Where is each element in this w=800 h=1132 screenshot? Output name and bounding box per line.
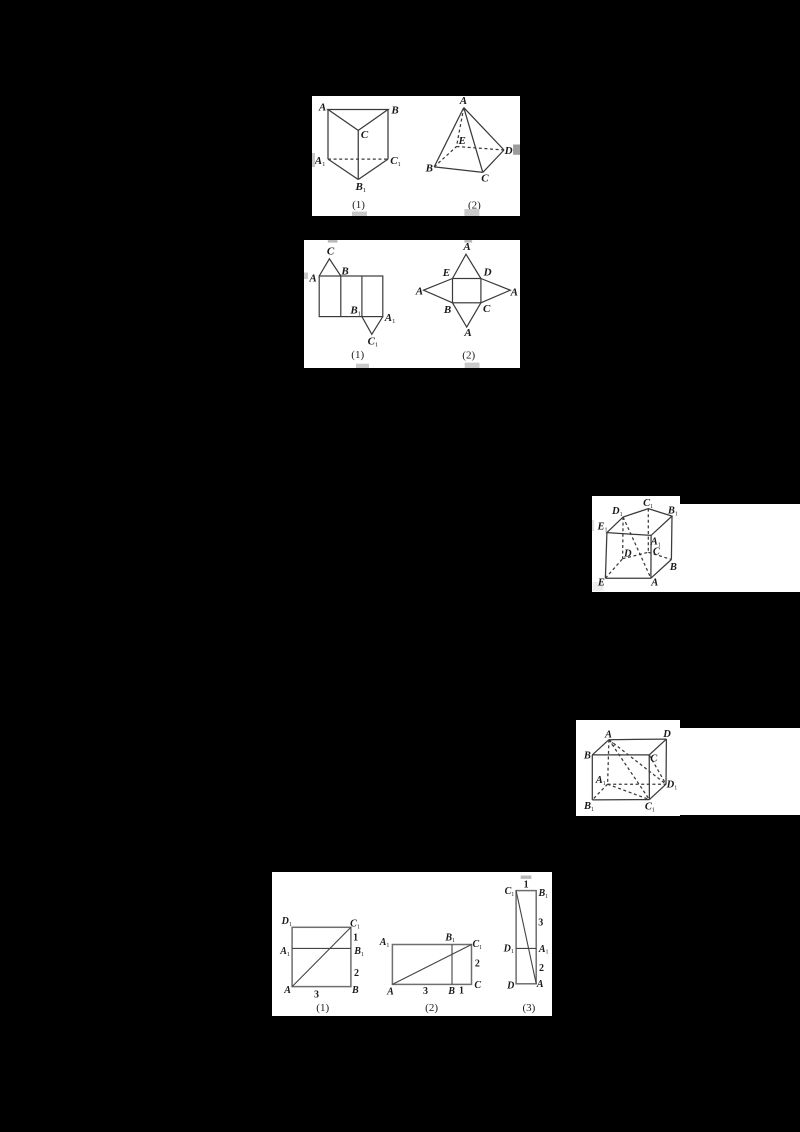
cube edge D-C (649, 739, 666, 755)
svg-text:B: B (351, 985, 359, 996)
svg-text:(1): (1) (316, 1002, 329, 1014)
edge E-A (605, 577, 651, 579)
scan artifact: grey square right of D (513, 145, 520, 155)
svg-text:A: A (283, 985, 291, 996)
cube edge B-C (592, 754, 649, 756)
pyramid edge A-D (464, 108, 504, 150)
svg-text:B1: B1 (537, 888, 548, 900)
cube edge B1-C1 (592, 798, 649, 800)
scan artifact grey: left square (304, 273, 308, 280)
svg-text:A: A (650, 577, 658, 588)
edge A1-A (650, 535, 652, 578)
cube hidden edge A1-D1 dashed (608, 783, 666, 785)
svg-text:D1: D1 (503, 943, 514, 955)
scan artifact grey: top left (328, 240, 338, 243)
svg-text:E: E (458, 135, 466, 147)
white band right of box 4 (680, 728, 800, 816)
cube edge A-D (609, 738, 667, 741)
svg-text:A1: A1 (314, 155, 326, 168)
rect (3) diagonal C1-A (516, 891, 536, 984)
prism hidden edge A1-C1 dashed (328, 158, 388, 160)
net (1): big rectangle (319, 276, 383, 317)
svg-text:2: 2 (354, 968, 359, 979)
svg-text:C: C (474, 980, 481, 991)
scan artifact: faint shade bottom-left (593, 582, 604, 591)
svg-text:D1: D1 (611, 506, 623, 518)
svg-text:B1: B1 (349, 305, 361, 318)
figure box 5: three unfolded rectangles with diagonals (272, 872, 552, 1016)
svg-text:B: B (390, 105, 398, 117)
svg-text:(3): (3) (522, 1002, 535, 1014)
svg-text:B: B (340, 265, 348, 277)
cube edge C-C1 (648, 755, 650, 800)
cube diagonal A1-C1 dashed (608, 784, 650, 799)
hidden diagonal D1-A dashed (623, 517, 651, 578)
svg-text:A1: A1 (279, 946, 290, 958)
svg-text:B1: B1 (355, 181, 367, 194)
svg-text:C: C (483, 303, 491, 315)
rect (1) outer (292, 927, 351, 986)
svg-text:1: 1 (524, 879, 529, 890)
pyramid edge B-C (434, 167, 483, 173)
scan artifact: grey bar left edge (312, 153, 315, 167)
svg-text:A1: A1 (538, 944, 549, 956)
scan artifact: grey rect below (2) (464, 209, 479, 216)
prism (1): top triangle ABC (328, 110, 388, 131)
prism edge A1-B1 (328, 159, 358, 179)
svg-text:B1: B1 (667, 505, 678, 517)
edge E1-E (605, 532, 607, 578)
rect (2) outer (392, 945, 471, 985)
figure box 1: solid views of prism and pyramid (312, 96, 520, 216)
prism top face E1-D1-C1-B1-A1 (607, 508, 672, 535)
svg-text:E: E (442, 267, 450, 279)
hidden edge C-B dashed (648, 552, 671, 559)
svg-text:2: 2 (539, 963, 544, 974)
hidden edge D-C dashed (623, 552, 649, 558)
svg-text:C1: C1 (368, 335, 379, 348)
hidden edge E-D dashed (605, 558, 622, 578)
svg-text:D: D (483, 266, 492, 278)
svg-text:A: A (308, 273, 316, 285)
scan artifact: faint shade left edge (592, 520, 594, 531)
cube hidden edge A1-B1 dashed (592, 784, 607, 800)
svg-text:1: 1 (459, 985, 464, 996)
cube edge C1-D1 (649, 784, 666, 799)
svg-text:D1: D1 (281, 916, 292, 928)
svg-text:B1: B1 (583, 801, 594, 813)
figure box 4: cube ABCD-A1B1C1D1 with section lines (576, 720, 680, 816)
svg-text:C1: C1 (350, 919, 360, 931)
svg-text:B1: B1 (353, 946, 364, 958)
svg-text:E1: E1 (596, 521, 607, 533)
scan artifact: grey rect below (1) (352, 212, 367, 216)
pyramid edge C-D (483, 150, 504, 172)
svg-text:B: B (447, 986, 455, 997)
star net: central square EDCB (453, 279, 481, 303)
svg-text:C1: C1 (472, 939, 482, 951)
net divider 1 (340, 276, 342, 317)
svg-text:A: A (462, 241, 470, 253)
svg-text:C: C (653, 546, 661, 557)
prism edge C1-B1 (358, 159, 388, 179)
svg-text:D1: D1 (666, 779, 678, 791)
svg-text:A: A (318, 101, 326, 113)
scan artifact grey: top right (464, 240, 472, 243)
edge B1-B (670, 516, 673, 559)
svg-text:A: A (415, 285, 423, 297)
svg-text:A: A (459, 96, 467, 107)
svg-text:(1): (1) (351, 349, 364, 361)
svg-text:C1: C1 (645, 801, 655, 813)
svg-text:C1: C1 (390, 155, 401, 168)
scan artifact grey above (3) (521, 876, 532, 879)
net divider 2 (361, 276, 363, 317)
cube diagonal C-D1 dashed (649, 755, 666, 784)
prism edge B-C1 (387, 110, 389, 160)
svg-text:C: C (361, 129, 369, 141)
svg-text:B: B (443, 304, 451, 316)
scan artifact: small hook near A (612, 742, 615, 745)
svg-text:A: A (604, 729, 612, 740)
pyramid edge A-C (464, 108, 483, 173)
rect (3) outer (516, 891, 536, 984)
edge A-B (651, 559, 672, 578)
svg-text:D: D (662, 729, 671, 740)
hidden edge C1-C dashed (647, 508, 649, 552)
star net top triangle (453, 254, 481, 278)
scan artifact grey: below (2) (465, 363, 480, 368)
cube edge A-B (592, 739, 609, 754)
net bottom triangle (362, 317, 383, 335)
svg-text:D: D (504, 145, 513, 157)
cube diagonal A-D1 dashed (609, 739, 666, 784)
cube diagonal A-C1 dashed (609, 739, 650, 799)
rect (1) divider A1-B1 (292, 947, 351, 949)
svg-text:C: C (327, 246, 335, 258)
rect (1) diagonal A-C1 (292, 927, 351, 986)
svg-text:D: D (623, 548, 632, 559)
hidden edge D1-D dashed (622, 517, 625, 559)
svg-text:(2): (2) (462, 350, 475, 362)
rect (3) divider D1-A1 (516, 947, 536, 949)
svg-text:A: A (386, 987, 394, 998)
svg-text:A1: A1 (595, 775, 606, 787)
svg-text:1: 1 (353, 933, 358, 944)
svg-text:2: 2 (475, 959, 480, 970)
svg-text:A1: A1 (379, 937, 390, 949)
cube hidden edge A-A1 dashed (608, 739, 609, 784)
prism edge C-B1 (357, 130, 359, 179)
pyramid hidden line E-D dashed (457, 147, 505, 151)
svg-text:E: E (597, 577, 605, 588)
prism edge A-A1 (327, 110, 329, 160)
cube edge B-B1 (591, 755, 593, 800)
pyramid (2): edge A-B (434, 108, 464, 167)
svg-text:B: B (425, 163, 433, 175)
svg-text:3: 3 (538, 918, 543, 929)
pyramid hidden line B-E dashed (434, 147, 456, 167)
svg-text:3: 3 (314, 990, 319, 1001)
figure box 2: unfolded nets (304, 240, 520, 368)
svg-text:D: D (506, 981, 514, 992)
svg-text:(2): (2) (425, 1002, 438, 1014)
net top triangle ABC (319, 259, 341, 276)
svg-text:B: B (669, 562, 677, 573)
rect (2) divider B-B1 (451, 945, 453, 985)
svg-text:B1: B1 (444, 932, 455, 944)
svg-text:A: A (463, 327, 471, 339)
figure box 3: pentagonal prism ABCDE-A1B1C1D1E1 (592, 496, 680, 592)
pyramid hidden line A-E dashed (457, 108, 464, 147)
star net left triangle (424, 279, 453, 303)
svg-text:A: A (510, 286, 518, 298)
svg-text:A1: A1 (384, 312, 396, 325)
svg-text:C1: C1 (643, 498, 653, 510)
svg-text:B: B (583, 750, 591, 761)
rect (2) diagonal A-C1 (392, 945, 471, 985)
svg-text:3: 3 (423, 986, 428, 997)
svg-text:C1: C1 (505, 886, 515, 898)
cube edge D-D1 (665, 739, 667, 784)
white band right of box 3 (680, 504, 800, 592)
star net bottom triangle (453, 303, 481, 327)
svg-text:C: C (650, 753, 658, 764)
svg-text:(1): (1) (352, 199, 365, 211)
svg-text:A: A (536, 979, 544, 990)
star net right triangle (481, 279, 510, 303)
scan artifact grey: below (1) (356, 364, 369, 368)
svg-text:C: C (481, 173, 489, 185)
